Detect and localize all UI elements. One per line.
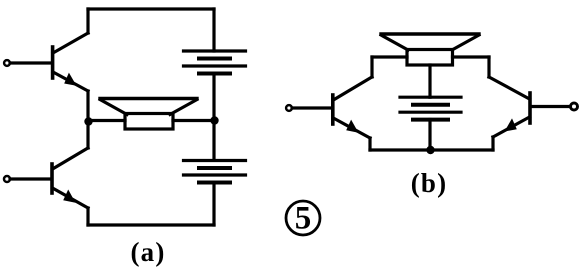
speaker LS1 <box>100 99 197 130</box>
transistor Q3 base terminal <box>286 105 292 111</box>
wire Q2 base lead <box>10 177 51 180</box>
wire node A down to Q2 collector <box>86 121 89 148</box>
svg-text:5: 5 <box>295 201 312 237</box>
wire top rail (a) <box>88 7 214 10</box>
wire battery B3 to bottom rail <box>428 120 431 151</box>
figure number 5 (circled) <box>286 201 320 237</box>
svg-text:(a): (a) <box>130 237 165 267</box>
wire Q4 base lead <box>533 105 570 108</box>
wire node B to battery B2 <box>212 121 215 160</box>
svg-text:(b): (b) <box>411 168 448 198</box>
node B (junction dot, right mid) <box>210 116 218 124</box>
wire Q3 base lead <box>292 106 331 109</box>
speaker LS2 <box>381 34 479 65</box>
wire bottom-right riser to battery B2 <box>212 183 215 225</box>
wire top-right drop to battery B1 <box>212 9 215 51</box>
transistor Q1 <box>53 33 88 91</box>
wire node A to speaker LS1 <box>88 119 125 122</box>
transistor Q2 <box>52 148 88 208</box>
battery B3 <box>400 97 461 119</box>
wire B1 to node B <box>212 74 215 121</box>
wire Q1 base lead <box>10 61 51 64</box>
transistor Q2 base terminal <box>4 176 10 182</box>
wire LS2 left drop <box>370 57 373 77</box>
wire LS2 left lead <box>372 55 407 58</box>
wire LS2 right drop <box>487 57 490 77</box>
node A (junction dot, left mid) <box>84 117 92 125</box>
wire LS2 right lead <box>453 55 490 58</box>
wire bottom rail (a) <box>88 223 214 226</box>
wire speaker LS1 to node B <box>173 119 214 122</box>
transistor Q4 <box>489 77 530 137</box>
wire top-left drop to Q1 collector <box>86 9 89 33</box>
transistor Q3 <box>333 77 372 138</box>
wire Q1 emitter down to node A <box>86 91 89 122</box>
transistor Q4 base terminal <box>571 103 578 110</box>
wire LS2 centre tap to battery B3 <box>428 65 431 97</box>
wire Q4 emitter drop to bottom rail <box>491 137 494 150</box>
wire Q2 emitter drop to bottom rail <box>86 208 89 225</box>
transistor Q1 base terminal <box>4 60 10 66</box>
wire Q3 emitter drop to bottom rail <box>368 138 371 150</box>
battery B1 <box>184 51 246 74</box>
battery B2 <box>184 161 246 183</box>
node C (junction dot, bottom centre) <box>426 146 434 154</box>
wire bottom rail (b) <box>370 148 493 151</box>
